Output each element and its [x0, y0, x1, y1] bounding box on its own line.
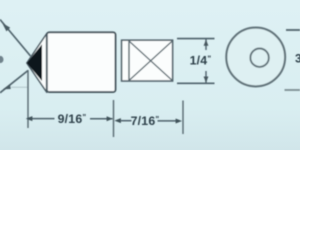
9/16 dim line right segment — [90, 118, 113, 120]
faint horizontal tick at cone apex level — [11, 86, 28, 88]
arrowhead on lower leader — [3, 84, 11, 89]
angle leader line lower-left — [0, 71, 28, 93]
leader line top right — [286, 29, 300, 31]
1/4 dim line lower segment — [205, 71, 207, 83]
cone tip outline (white) — [27, 34, 47, 93]
9/16 left arrowhead — [26, 116, 33, 121]
extension line from cone apex (left) — [27, 70, 29, 128]
bottom extension line of 1/4 dim — [177, 82, 215, 84]
technical drawing of mounted grinding point, side view + end view — [0, 0, 300, 150]
7/16 right arrowhead — [176, 119, 182, 124]
end view outer circle — [226, 28, 285, 87]
cone black abrasive tip — [27, 44, 42, 81]
top extension line of 1/4 dim — [177, 38, 215, 40]
1/4 dim line upper segment — [205, 39, 207, 50]
shank rectangle — [122, 40, 173, 81]
7/16 dim line right segment — [158, 120, 177, 122]
end view inner hole circle — [250, 49, 268, 67]
1/4 dim upper arrowhead — [204, 40, 209, 46]
svg-text:9/16": 9/16" — [58, 112, 87, 126]
9/16 dim line left segment — [27, 118, 55, 120]
7/16 left arrowhead — [114, 118, 121, 123]
shank inner vertical line — [128, 41, 130, 82]
extension line below shank end — [182, 101, 184, 135]
leader line bottom right — [285, 89, 301, 91]
9/16 right arrowhead — [107, 116, 113, 121]
arrowhead on upper leader — [2, 23, 10, 31]
shank cross diagonal 1 — [129, 41, 172, 81]
shank cross diagonal 2 — [129, 41, 172, 81]
svg-text:7/16": 7/16" — [131, 114, 160, 128]
extension line below body right edge — [113, 100, 115, 137]
cylindrical body rectangle — [47, 32, 116, 92]
1/4 dim lower arrowhead — [204, 77, 209, 83]
clipped mark at left edge near apex level — [0, 56, 4, 63]
angle leader line upper-left — [0, 20, 31, 57]
svg-text:3: 3 — [295, 52, 300, 66]
7/16 dim line left segment — [121, 120, 132, 122]
